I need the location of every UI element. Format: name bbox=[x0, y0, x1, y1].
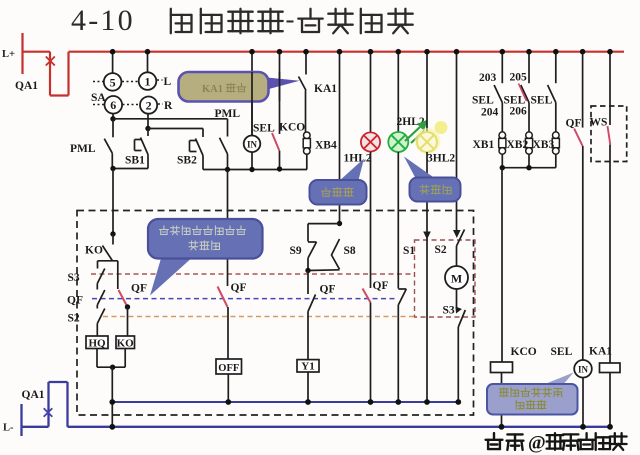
wire branch to L- bus bbox=[111, 367, 113, 427]
wire Y1 to return bbox=[307, 372, 309, 402]
wire KA1 coil to L- bus bbox=[609, 373, 611, 428]
svg-text:205: 205 bbox=[510, 72, 528, 84]
node return 370 bbox=[368, 399, 374, 405]
contact QF col370 (red blade) bbox=[363, 289, 371, 303]
svg-text:Y1: Y1 bbox=[301, 361, 314, 373]
svg-text:QF: QF bbox=[373, 280, 389, 292]
wire OFF to return bbox=[227, 374, 229, 402]
wire WS to KA1 coil bbox=[609, 145, 611, 363]
big dashed box around QF auxiliary contacts bbox=[77, 211, 474, 416]
node PML bottom bbox=[110, 166, 115, 171]
contact KA1 bbox=[299, 77, 307, 91]
svg-text:IN: IN bbox=[578, 365, 589, 375]
svg-text:SEL: SEL bbox=[472, 95, 494, 107]
node XB1 bottom bbox=[500, 165, 505, 170]
wire bus to SEL1 bbox=[501, 52, 503, 83]
wire over bubble (SEL col) bbox=[251, 72, 253, 136]
callout green lamp on bbox=[404, 157, 436, 180]
switch PML left bbox=[112, 119, 114, 138]
wire L- to QA1 bottom bbox=[21, 426, 49, 428]
wire XB4 bottom bbox=[306, 154, 308, 169]
contact SEL2 (red) bbox=[521, 85, 529, 103]
lamp 2HL2 green bbox=[388, 132, 408, 152]
svg-text:@: @ bbox=[528, 433, 546, 454]
SA contact 2 bbox=[140, 97, 157, 114]
fuse link XB3 bbox=[553, 132, 560, 139]
wire bus to KA1 contact bbox=[305, 52, 307, 75]
arrow S2 bbox=[453, 230, 461, 238]
node OFF column top bbox=[225, 167, 230, 172]
contact S3 right bbox=[458, 310, 465, 327]
fuse link XB2 bbox=[526, 132, 533, 139]
node SEL lamp bottom bbox=[249, 167, 254, 172]
wire bus to SEL3 bbox=[555, 52, 557, 83]
wire bus to SEL2 (205) bbox=[528, 52, 530, 83]
wire S9 node to QF bbox=[307, 271, 309, 295]
svg-text:L+: L+ bbox=[2, 49, 15, 60]
svg-text:SEL: SEL bbox=[551, 346, 573, 358]
wire bus to S9-S8 node bbox=[339, 52, 341, 224]
node return 457 bbox=[455, 399, 461, 405]
motor M bbox=[445, 266, 468, 289]
svg-text:KA1: KA1 bbox=[589, 346, 612, 358]
contact QF col398 bbox=[398, 289, 406, 305]
node A bbox=[110, 116, 115, 121]
glow arrow at 2HL2 bbox=[435, 121, 448, 134]
node L- KA1 bbox=[607, 424, 613, 430]
svg-text:QF: QF bbox=[566, 118, 582, 130]
wire XB bottoms joined bbox=[501, 154, 503, 168]
wire bus to SEL lamp bbox=[251, 52, 253, 136]
contact SEL1 bbox=[494, 85, 502, 103]
relay coil KCO bbox=[491, 362, 513, 373]
contact SEL3 bbox=[548, 85, 556, 103]
wire node B to SB2 bbox=[148, 128, 203, 130]
node return 398 bbox=[395, 399, 401, 405]
wire HQ to bottom bar bbox=[96, 349, 98, 368]
wire right branch down bbox=[117, 261, 119, 289]
wire QF370 to return bbox=[370, 303, 372, 403]
wire QF to KO coil bbox=[127, 307, 129, 336]
svg-text:KA1: KA1 bbox=[314, 83, 337, 95]
title Chinese bbox=[171, 9, 192, 33]
node KCO bottom bbox=[277, 166, 282, 171]
wire bus to 1HL2 bbox=[370, 52, 372, 133]
node L- SEL bbox=[580, 424, 586, 430]
switch PML right bbox=[220, 138, 228, 154]
wire QF582 to SEL lamp bbox=[582, 146, 584, 360]
wire SEL3 to XB3 bbox=[555, 103, 557, 133]
wire KO to bottom bar bbox=[124, 349, 126, 368]
contact QF left bbox=[97, 290, 105, 305]
wire bus to SA contact 5 bbox=[112, 52, 114, 73]
arrow S3 bbox=[456, 307, 463, 314]
wire SEL1 to XB1 bbox=[501, 103, 503, 133]
WS dashed box bbox=[591, 106, 627, 162]
relay coil Y1 bbox=[297, 360, 319, 372]
watermark bbox=[486, 433, 503, 449]
svg-text:KCO: KCO bbox=[279, 122, 305, 134]
wire SB2 to XB4 bottom bbox=[203, 169, 307, 171]
lamp 1HL2 red bbox=[361, 132, 380, 151]
S2 linkage dashed line bbox=[103, 316, 415, 318]
L+ terminal bbox=[21, 33, 23, 74]
svg-text:QF: QF bbox=[131, 283, 147, 295]
wire S9-S8 top bar bbox=[308, 223, 340, 225]
svg-text:SB2: SB2 bbox=[177, 155, 197, 167]
node B bbox=[145, 126, 150, 131]
contact KCO (red blade) bbox=[272, 133, 280, 151]
contact S3 left bbox=[97, 269, 105, 284]
svg-text:S3: S3 bbox=[68, 272, 80, 284]
svg-text:KCO: KCO bbox=[511, 346, 537, 358]
svg-text:R: R bbox=[164, 100, 173, 112]
wire bus to WS bbox=[609, 52, 611, 125]
contact S8 bbox=[332, 239, 340, 269]
L+ bus bbox=[69, 51, 625, 53]
svg-text:XB4: XB4 bbox=[315, 140, 337, 152]
svg-text:QF: QF bbox=[231, 282, 247, 294]
wire SEL lamp to L- bus bbox=[582, 378, 584, 427]
callout aux contacts switched bbox=[150, 255, 195, 296]
svg-text:4-10: 4-10 bbox=[71, 4, 135, 37]
svg-text:M: M bbox=[451, 272, 462, 286]
wire S2 to HQ coil bbox=[96, 324, 98, 337]
wire PML-SB1 bottom bbox=[113, 168, 148, 170]
SA linkage dotted row1 bbox=[93, 81, 104, 83]
wire S3-QF bbox=[96, 284, 98, 290]
svg-text:OFF: OFF bbox=[218, 363, 239, 374]
wire SA6 to node A bbox=[112, 114, 114, 119]
svg-text:KO: KO bbox=[117, 338, 135, 350]
callout red lamp off bbox=[338, 159, 364, 183]
svg-text:1HL2: 1HL2 bbox=[344, 153, 372, 165]
svg-text:SB1: SB1 bbox=[125, 155, 145, 167]
wire bus to S2 bbox=[456, 52, 458, 230]
wire 3HL2 down (S1 column) bbox=[426, 152, 428, 402]
bus junction dots bbox=[110, 49, 116, 55]
svg-text:QF: QF bbox=[320, 284, 336, 296]
arrow S1 bbox=[423, 232, 431, 240]
svg-text:6: 6 bbox=[110, 98, 116, 112]
wire L+ to QA1 bbox=[22, 51, 51, 53]
contact S9 bbox=[307, 224, 309, 242]
contact S2 left bbox=[97, 309, 105, 324]
SA contact 5 bbox=[104, 73, 122, 91]
lamp SEL IN (top) bbox=[244, 136, 261, 153]
fuse link XB1 bbox=[499, 132, 506, 139]
svg-text:1: 1 bbox=[145, 75, 151, 89]
svg-text:204: 204 bbox=[481, 107, 499, 119]
svg-text:S1: S1 bbox=[403, 245, 415, 257]
breaker QA1 (top) bbox=[49, 52, 51, 96]
wire 1HL2 down to QF bbox=[370, 152, 372, 288]
node KO top bbox=[110, 231, 115, 236]
SA contact 1 bbox=[139, 72, 157, 90]
wire QA1 bottom hump bbox=[49, 381, 68, 383]
wire QF308 to Y1 bbox=[307, 312, 309, 360]
relay coil KO bbox=[116, 336, 135, 349]
wire SA2 to node B bbox=[147, 114, 149, 129]
svg-text:HQ: HQ bbox=[88, 338, 106, 350]
svg-text:5: 5 bbox=[110, 75, 116, 89]
contact QF col308 bbox=[308, 295, 316, 312]
svg-text:IN: IN bbox=[247, 140, 258, 150]
wire bus to SA contact 1 bbox=[147, 52, 149, 72]
svg-text:PML: PML bbox=[70, 143, 96, 155]
svg-text:XB1: XB1 bbox=[473, 139, 495, 151]
lamp SEL IN (bottom) bbox=[574, 360, 592, 378]
relay coil OFF bbox=[216, 359, 242, 374]
blue return wire bbox=[112, 401, 458, 403]
svg-text:WS: WS bbox=[590, 117, 608, 129]
lamp 3HL2 yellow bbox=[415, 128, 441, 154]
svg-text:S2: S2 bbox=[68, 313, 80, 325]
sub dashed box around S1 S2 interlock bbox=[415, 240, 476, 317]
wire QA1 dip bbox=[50, 94, 69, 96]
node HQ-KO bottom bbox=[110, 365, 115, 370]
wire bus to 3HL2 bbox=[426, 52, 428, 133]
svg-text:QA1: QA1 bbox=[15, 80, 38, 92]
contact KO bbox=[112, 234, 114, 245]
L- bus bbox=[68, 426, 611, 428]
svg-text:3HL2: 3HL2 bbox=[427, 153, 455, 165]
svg-text:PML: PML bbox=[215, 108, 241, 120]
fuse link XB4 bbox=[304, 132, 311, 139]
breaker QA1 (bottom) bbox=[47, 382, 49, 427]
wire OFF column top bbox=[227, 170, 229, 287]
svg-text:2: 2 bbox=[146, 99, 152, 113]
node return 308 bbox=[305, 399, 311, 405]
wire node A to right PML bbox=[113, 118, 228, 120]
wire QF398 to return bbox=[397, 305, 399, 402]
wire 2HL2 down to QF bbox=[397, 152, 399, 289]
svg-text:S2: S2 bbox=[435, 244, 447, 256]
pushbutton SB2 bbox=[196, 139, 204, 156]
svg-text:KO: KO bbox=[85, 245, 103, 257]
QF linkage dashed line bbox=[92, 298, 396, 300]
pushbutton SB1 bbox=[147, 129, 149, 137]
svg-text:QF: QF bbox=[67, 295, 83, 307]
node return 427 bbox=[424, 399, 430, 405]
contact QF right branch (red) bbox=[119, 290, 128, 307]
wire node PML bottom down bbox=[112, 169, 114, 235]
contact WS (red blade) bbox=[608, 126, 611, 145]
wire KO split bar bbox=[98, 260, 118, 262]
node S9 bottom bbox=[305, 268, 310, 273]
callout breaker closed indicator off bbox=[540, 373, 574, 387]
svg-text:SA: SA bbox=[91, 92, 106, 104]
svg-text:-: - bbox=[286, 4, 295, 34]
wire XB junction to KCO coil bbox=[501, 168, 503, 362]
node XB2 bottom bbox=[526, 165, 531, 170]
wire HQ-KO bottom bar bbox=[97, 366, 125, 368]
svg-text:QA1: QA1 bbox=[22, 389, 45, 401]
svg-text:KA1: KA1 bbox=[202, 84, 223, 95]
svg-text:L: L bbox=[164, 76, 172, 88]
node QF pivot bbox=[125, 304, 130, 309]
svg-text:203: 203 bbox=[479, 72, 497, 84]
node L- 112 bbox=[109, 424, 115, 430]
svg-text:SEL: SEL bbox=[531, 95, 553, 107]
callout KA1 open bbox=[267, 78, 300, 90]
svg-text:XB3: XB3 bbox=[533, 139, 555, 151]
wire bus to 2HL2 bbox=[397, 52, 399, 132]
node return 228 bbox=[225, 399, 231, 405]
wire KA1 to XB4 bbox=[305, 91, 307, 133]
wire SEL lamp to bottom bbox=[251, 152, 253, 169]
wire left branch to S3 bbox=[97, 261, 99, 269]
contact QF582 (red blade) bbox=[574, 129, 583, 147]
wire KCO contact bottom bbox=[279, 151, 281, 169]
wire QF-S2 bbox=[96, 305, 98, 309]
relay coil HQ bbox=[86, 336, 108, 349]
contact S2 bbox=[457, 230, 465, 247]
svg-text:S3: S3 bbox=[443, 305, 455, 317]
svg-text:SEL: SEL bbox=[253, 123, 275, 135]
L- terminal bbox=[20, 404, 22, 436]
contact QF col227 (red blade) bbox=[218, 287, 228, 308]
node return 112 bbox=[109, 399, 115, 405]
relay coil KA1 bbox=[600, 363, 621, 373]
wire bus to QF582 bbox=[582, 52, 584, 128]
node S9-S8 top bbox=[337, 221, 342, 226]
wire SEL2 to XB2 bbox=[528, 103, 530, 133]
wire S2 to motor bbox=[456, 246, 458, 266]
wire QF227 to OFF coil bbox=[227, 307, 229, 359]
wire over bubble (KCO col) bbox=[279, 72, 281, 101]
wire bus to KCO contact bbox=[279, 52, 281, 134]
svg-text:S9: S9 bbox=[290, 245, 302, 257]
SA contact 6 bbox=[105, 96, 123, 114]
wire motor to S3 bbox=[456, 289, 458, 310]
svg-text:S8: S8 bbox=[344, 245, 356, 257]
SA linkage dotted row2 bbox=[93, 104, 104, 106]
svg-text:206: 206 bbox=[510, 106, 528, 118]
svg-text:L-: L- bbox=[3, 423, 14, 434]
svg-text:XB2: XB2 bbox=[507, 139, 529, 151]
S3 linkage dashed line bbox=[91, 273, 414, 275]
node L- KCO bbox=[499, 424, 505, 430]
